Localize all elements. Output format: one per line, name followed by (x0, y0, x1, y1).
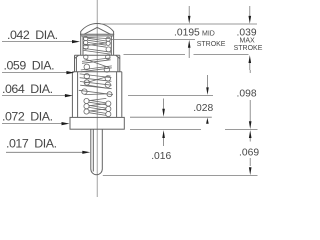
stem mid stroke bottom arrow (188, 48, 190, 59)
spring coils (79, 37, 113, 117)
arrow up B at 189 (188, 40, 191, 48)
svg-text:STROKE: STROKE (234, 45, 263, 52)
leader .059 (2, 72, 68, 74)
stem .069 lower (249, 158, 251, 166)
centerline (96, 0, 98, 197)
ext line flange bottom (130, 129, 201, 131)
arrow .059 (66, 71, 74, 74)
leader .042 (2, 41, 73, 43)
svg-text:.069: .069 (239, 148, 259, 159)
plunger tip cone (84, 27, 111, 34)
pin tail (91, 129, 103, 175)
svg-text:MAX: MAX (240, 38, 256, 45)
leader .064 (2, 95, 67, 97)
leader .017 (6, 151, 83, 153)
arrow .072 (62, 122, 70, 125)
arrow down flange top .028 (162, 109, 165, 117)
svg-text:.072 DIA.: .072 DIA. (2, 110, 53, 124)
plunger dome base line (80, 33, 114, 35)
ext line internal step (128, 95, 213, 97)
arrow down step at 207 (206, 87, 209, 95)
ext line flange top (130, 116, 212, 118)
arrow down pin tip .069 (249, 167, 252, 175)
arrow down A at 250 (249, 16, 252, 24)
arrow up flange top at 207 (206, 118, 209, 124)
stem .098 lower (249, 100, 251, 122)
plunger tube walls (80, 34, 82, 55)
svg-text:.028: .028 (193, 103, 213, 114)
collar chamfers (75, 55, 120, 58)
ext line C max stroke (124, 54, 186, 56)
ext line pin tip (103, 175, 258, 177)
arrow .064 (65, 94, 73, 97)
svg-text:STROKE: STROKE (197, 41, 226, 48)
arrow up C at 250 (249, 55, 252, 63)
arrowheads (62, 16, 252, 175)
arrow .017 (82, 151, 90, 154)
stem max stroke top arrow (249, 6, 251, 16)
ext line A free tip (101, 23, 258, 25)
svg-text:.017 DIA.: .017 DIA. (6, 137, 57, 151)
arrow down flange bottom .098 (249, 121, 252, 129)
svg-text:.016: .016 (151, 151, 171, 162)
svg-text:.059 DIA.: .059 DIA. (4, 59, 55, 73)
arrow up flange bottom .069 (249, 130, 252, 138)
barrel top edge (72, 71, 121, 73)
plunger dome tip (81, 24, 114, 35)
arrow down A at 189 (188, 16, 191, 24)
svg-text:MID: MID (202, 31, 215, 38)
spring section 2 (inside collar) (81, 55, 112, 72)
spring section 1 (inside plunger tube) (83, 37, 111, 55)
labels (2, 28, 58, 150)
stem .028 bottom arrow (163, 138, 165, 146)
barrel walls (71, 72, 73, 118)
stem mid stroke top arrow (188, 6, 190, 16)
arrow .042 (72, 40, 80, 43)
stem .069 upper (249, 137, 251, 142)
plunger top face line (81, 35, 114, 37)
stem .098 upper (249, 70, 251, 73)
svg-text:.0195: .0195 (174, 28, 200, 39)
pin inner line (92, 129, 94, 171)
flange (70, 117, 124, 129)
leader .072 (2, 123, 62, 125)
svg-text:.042 DIA.: .042 DIA. (7, 28, 58, 42)
spring section 3 (upper barrel) (79, 74, 113, 97)
collar walls (74, 55, 76, 72)
spring section 4 (lower barrel, reduced diameter) (84, 98, 111, 116)
arrow up flange bottom .016 (162, 130, 165, 138)
stem step arrow (207, 75, 209, 89)
svg-text:.064 DIA.: .064 DIA. (2, 82, 53, 96)
collar top edge (75, 54, 120, 56)
ext line B mid stroke (112, 38, 196, 40)
svg-text:.098: .098 (237, 88, 257, 99)
stem max stroke bottom arrow (249, 63, 251, 71)
stem .028 top arrow (163, 99, 165, 110)
dimension lines (2, 6, 258, 176)
